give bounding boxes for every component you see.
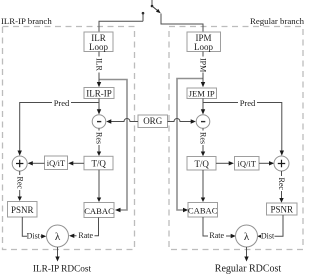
svg-text:PSNR: PSNR <box>11 205 34 215</box>
label IPM <box>199 57 208 73</box>
wire IPM <box>201 52 205 88</box>
svg-text:Rec: Rec <box>15 177 24 190</box>
label Rec left <box>15 175 24 190</box>
box PSNR left <box>8 202 38 218</box>
wire iQ/iT to adder left <box>28 161 45 165</box>
dashed box Regular branch <box>169 27 303 250</box>
label Pred left <box>52 98 71 108</box>
svg-text:Dist: Dist <box>261 231 275 240</box>
dashed box ILR-IP branch <box>3 27 135 250</box>
box T/Q left <box>84 156 113 170</box>
box JEM IP <box>187 88 217 99</box>
box T/Q right <box>187 157 216 171</box>
svg-text:Dist: Dist <box>27 231 41 240</box>
subtractor node left <box>92 115 106 129</box>
wire Rec right <box>279 171 283 203</box>
wire IPM mode to CABAC <box>177 79 203 213</box>
svg-text:Res: Res <box>199 132 208 144</box>
wire T/Q to iQ/iT left <box>68 161 84 165</box>
svg-text:Rec: Rec <box>277 178 286 191</box>
wire T/Q to CABAC left <box>97 170 101 202</box>
wire Rate left <box>69 218 99 239</box>
svg-text:CABAC: CABAC <box>188 206 218 216</box>
svg-text:JEM IP: JEM IP <box>189 89 215 99</box>
box iQ/iT right <box>235 157 260 171</box>
svg-text:ILR-IP RDCost: ILR-IP RDCost <box>33 265 92 275</box>
svg-text:PSNR: PSNR <box>270 204 293 214</box>
wire Pred left <box>18 103 100 156</box>
label Rate left <box>77 231 95 240</box>
wire T/Q to iQ/iT right <box>216 161 234 165</box>
box IPM Loop <box>187 32 221 52</box>
subtractor node right <box>196 115 210 129</box>
wire switch to ILR Loop <box>99 21 143 31</box>
svg-text:λ: λ <box>244 231 250 243</box>
label Rec right <box>277 176 286 191</box>
svg-text:Pred: Pred <box>54 98 70 108</box>
svg-text:IPM: IPM <box>199 58 208 72</box>
box PSNR right <box>267 203 298 215</box>
wire Pred right <box>203 103 284 156</box>
svg-text:ILR: ILR <box>95 58 104 72</box>
svg-text:Rate: Rate <box>209 231 224 240</box>
wire RDCost out right <box>244 247 248 262</box>
wire Dist left <box>22 217 46 239</box>
wire Rate right <box>203 217 236 238</box>
wire Res left <box>97 128 101 156</box>
wire JEM IP to subtractor <box>201 99 205 115</box>
svg-text:T/Q: T/Q <box>91 159 106 169</box>
svg-text:iQ/iT: iQ/iT <box>237 159 256 169</box>
wire iQ/iT to adder right <box>259 161 274 165</box>
switch arm <box>152 6 161 13</box>
label ILR <box>95 57 104 73</box>
svg-text:CABAC: CABAC <box>84 206 114 216</box>
svg-text:ORG: ORG <box>143 116 163 126</box>
box ILR Loop <box>84 32 113 52</box>
box ILR-IP <box>84 88 114 99</box>
wire ILR mode to CABAC <box>99 80 127 213</box>
wire Res right <box>201 128 205 156</box>
wire Dist right <box>257 215 283 239</box>
multiplier lambda right <box>236 225 258 247</box>
svg-text:Rate: Rate <box>78 231 93 240</box>
wire switch to IPM Loop <box>161 14 203 32</box>
switch pivot <box>151 5 154 8</box>
wire Rec left <box>18 171 22 201</box>
label Rate right <box>208 231 226 240</box>
svg-text:ILR-IP branch: ILR-IP branch <box>1 16 52 26</box>
svg-text:Pred: Pred <box>240 98 256 108</box>
box iQ/iT left <box>45 156 68 170</box>
wire ILR-IP to subtractor <box>97 99 101 115</box>
box CABAC right <box>188 203 218 218</box>
label Res right <box>199 131 208 146</box>
svg-text:Regular branch: Regular branch <box>250 16 305 26</box>
wire ILR <box>97 52 101 88</box>
svg-text:λ: λ <box>55 231 61 243</box>
svg-text:Loop: Loop <box>89 42 108 52</box>
wire ORG to left subtractor <box>106 119 138 124</box>
wire input <box>151 0 153 6</box>
svg-text:iQ/iT: iQ/iT <box>47 158 66 168</box>
wire ORG to right subtractor <box>168 119 196 124</box>
multiplier lambda left <box>47 225 69 247</box>
wire RDCost out left <box>55 247 59 262</box>
adder node left <box>12 156 27 171</box>
svg-text:Res: Res <box>95 132 104 144</box>
box ORG <box>138 115 168 128</box>
svg-text:ILR-IP: ILR-IP <box>86 88 112 98</box>
svg-text:T/Q: T/Q <box>194 159 209 169</box>
box CABAC left <box>84 203 114 218</box>
adder node right <box>274 156 289 171</box>
label Pred right <box>238 98 257 108</box>
svg-text:Loop: Loop <box>194 42 213 52</box>
switch left contact <box>142 12 145 21</box>
label Dist left <box>27 231 41 240</box>
label Dist right <box>261 231 275 240</box>
svg-text:Regular RDCost: Regular RDCost <box>215 264 282 275</box>
label Res left <box>95 131 104 146</box>
wire T/Q to CABAC right <box>201 170 205 202</box>
